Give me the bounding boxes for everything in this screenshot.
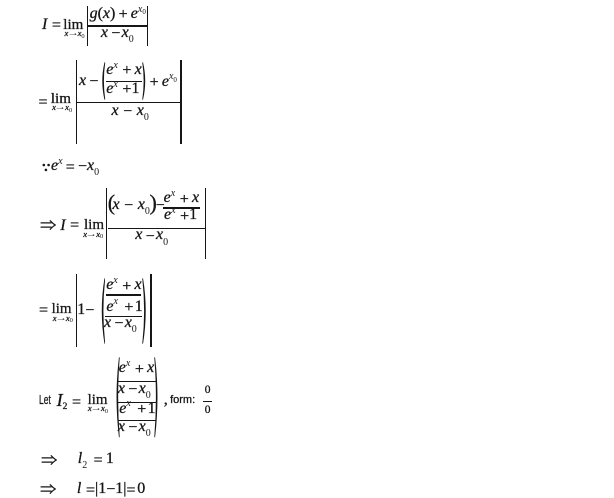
equation line 4 [39, 302, 48, 318]
equation line 1: I = lim |(g(x)+e^x0)/(x-x0)| [42, 17, 61, 33]
note: because e^x = -x0 [42, 163, 51, 172]
equation line 5: Let I2 = ... , form 0/0 [39, 394, 56, 407]
equation line 7: => l = |1-1| = 0 [40, 484, 56, 494]
equation line 3 [40, 220, 56, 230]
equation line 2 [39, 91, 48, 107]
equation line 6: => I2 = 1 [41, 455, 57, 465]
